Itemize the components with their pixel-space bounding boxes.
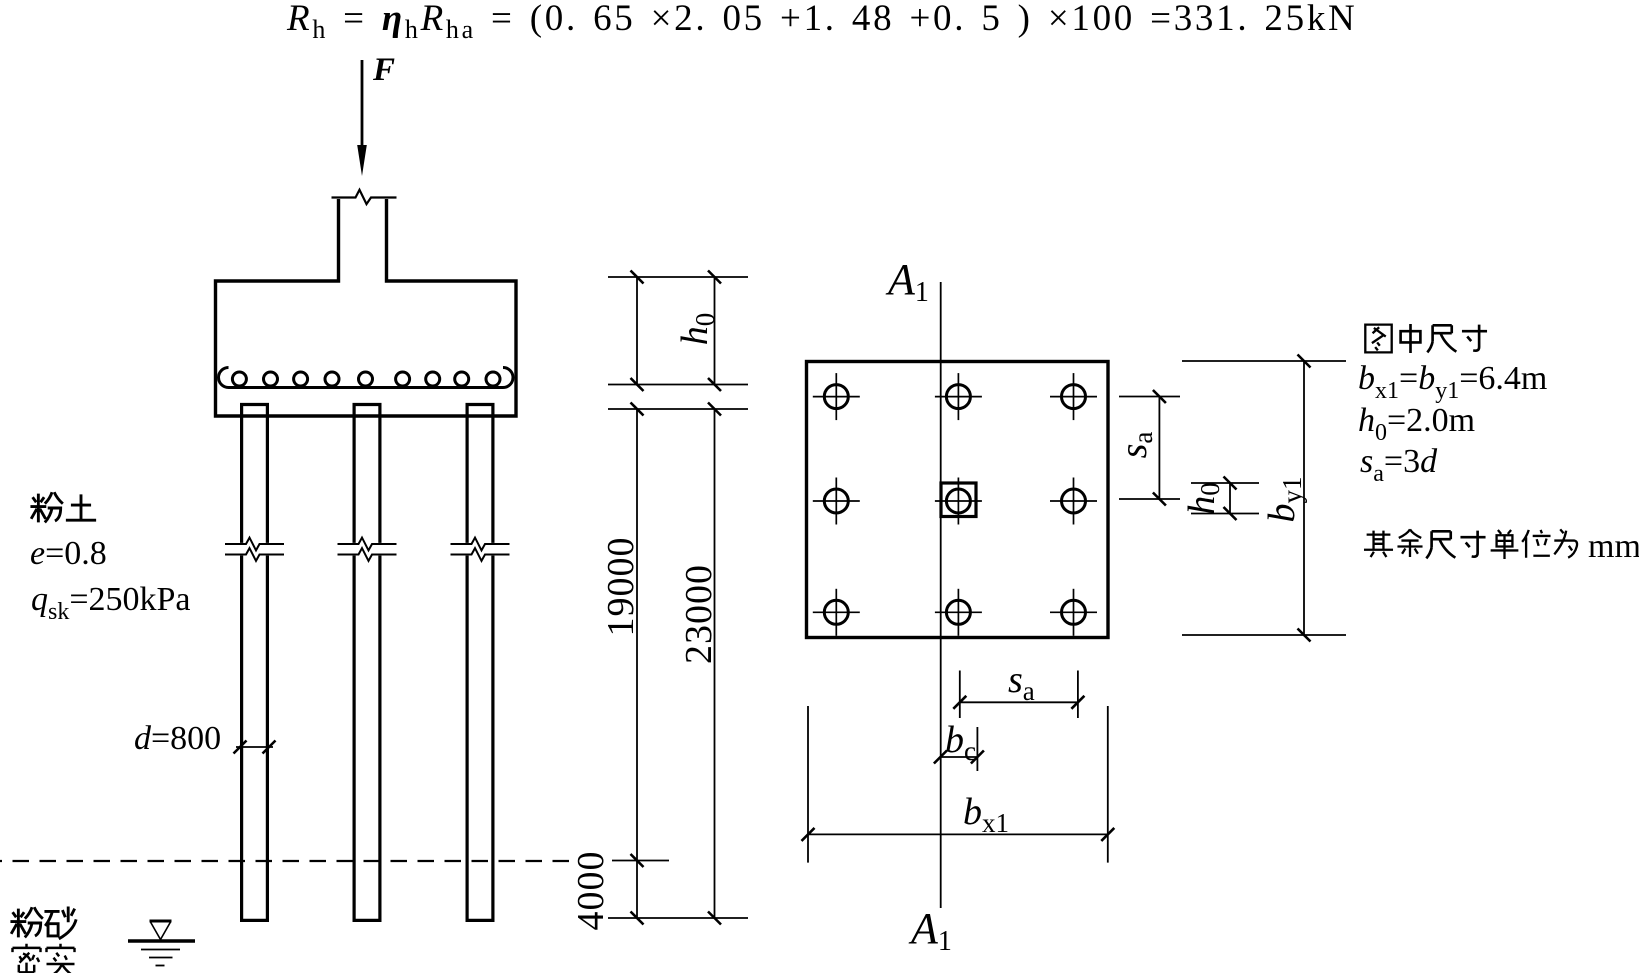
sa horizontal dimension below plan [953,671,1084,719]
svg-text:mm: mm [1588,528,1639,565]
force arrow F shaft [361,60,364,148]
note title tu-zhong-chi-cun [1365,325,1391,353]
pile 1 embedded head [242,405,268,417]
extension line cap top [608,276,748,278]
pile 3 shaft [466,416,495,920]
rebar circle 7 [426,372,440,386]
svg-text:e=0.8: e=0.8 [30,535,107,572]
pile 2 embedded head [354,405,380,417]
soil label fen-tu [30,492,62,522]
pile 2 shaft [353,416,382,920]
pile r3c3 [1050,589,1097,636]
bc dimension [934,727,984,771]
pile cap plan outline [807,362,1109,638]
rebar circle 6 [396,372,410,386]
rebar circle 4 [325,372,339,386]
svg-text:F: F [372,52,395,88]
rebar circle 1 [232,372,246,386]
pile r3c2 [935,589,982,636]
column break zigzag [332,190,397,204]
rebar line with end hooks [219,368,514,388]
rebar circle 5 [359,372,373,386]
column outline bc square [941,483,976,517]
column and pile cap outline [216,199,517,416]
h0 dimension lines [636,277,638,385]
by1 dimension [1182,355,1346,642]
pile r2c2 center [935,478,982,525]
pile r1c1 [813,373,860,420]
force arrow F head [357,145,367,176]
pile r2c3 [1050,478,1097,525]
soil label mi-shi [13,944,41,973]
svg-text:19000: 19000 [600,537,642,637]
pile 3 embedded head [467,405,493,417]
h0 small dimension plan [1191,477,1259,521]
rebar circle 2 [264,372,278,386]
tick marks [631,271,644,284]
pile 3 break [451,538,510,561]
extension line pile tip [608,917,748,919]
water table symbol [128,921,195,966]
svg-text:4000: 4000 [570,851,612,931]
note qi-yu-chi-cun-dan-wei-wei mm [1364,531,1393,557]
pile r3c1 [813,589,860,636]
pile 1 shaft [240,416,269,920]
svg-text:d=800: d=800 [134,720,221,757]
svg-text:23000: 23000 [678,564,720,664]
pile r2c1 [813,478,860,525]
pile r1c2 [935,373,982,420]
rebar circle 9 [486,372,500,386]
extension line ground level [612,860,669,862]
rebar circle 3 [294,372,308,386]
19000/23000 dimension lines [636,409,638,918]
section line A1-A1 [940,282,942,908]
pile 2 break [338,538,397,561]
d=800 dimension line with ticks [234,741,276,754]
extension line rebar level [608,384,748,386]
pile r1c3 [1050,373,1097,420]
pile 1 break [225,538,284,561]
dashed ground line [0,860,569,862]
bx1 dimension [802,706,1115,863]
soil label fen-sha [10,907,42,937]
rebar circle 8 [455,372,469,386]
sa vertical dimension right [1119,390,1180,506]
extension line cap bottom [608,408,748,410]
